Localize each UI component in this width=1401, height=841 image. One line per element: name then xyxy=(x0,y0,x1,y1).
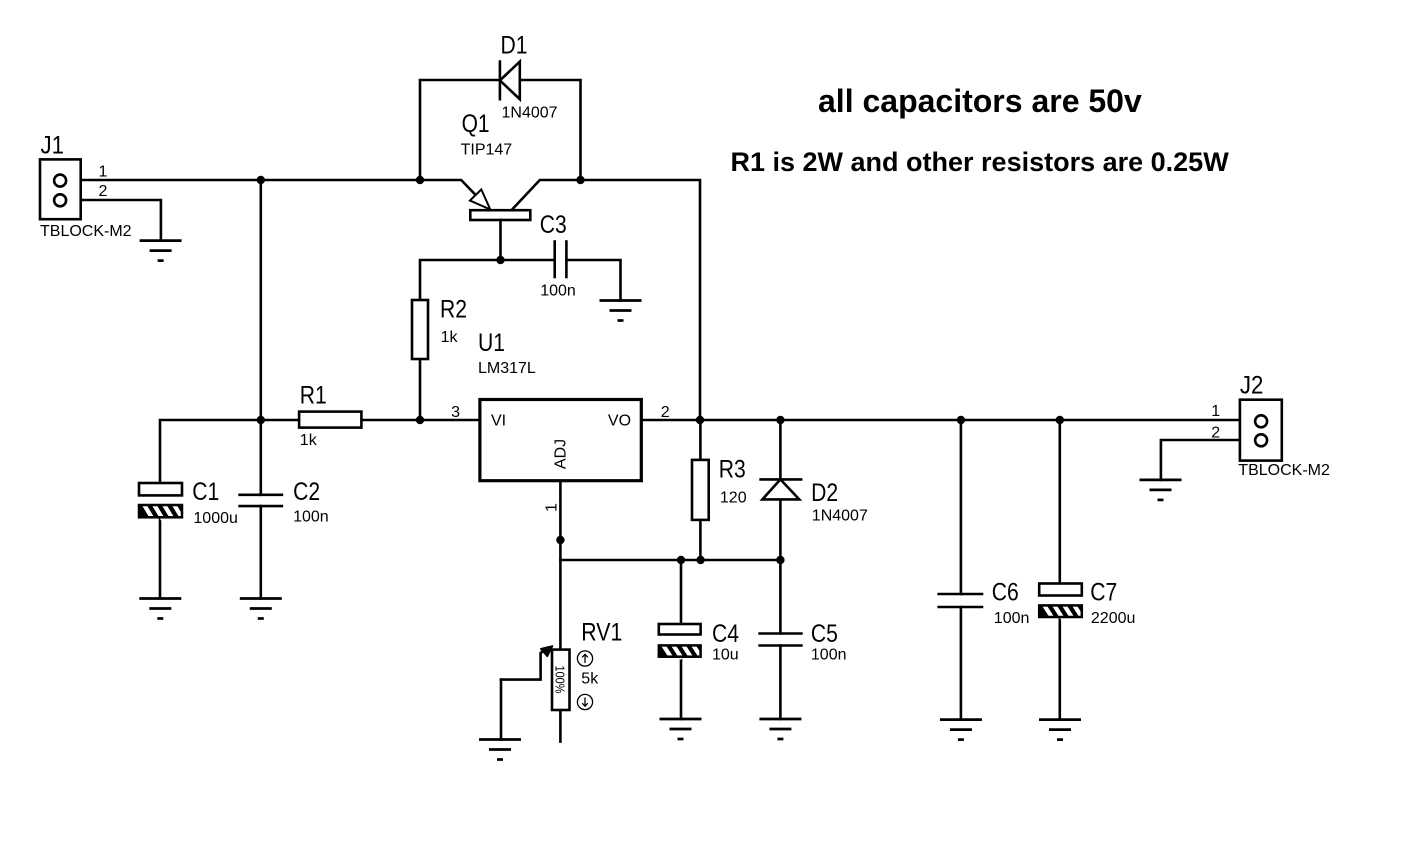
svg-text:C7: C7 xyxy=(1090,579,1117,607)
wire RV1 wiper xyxy=(501,649,547,680)
svg-text:100%: 100% xyxy=(553,666,568,694)
svg-text:R3: R3 xyxy=(719,456,746,484)
capacitor C7 (polarized) xyxy=(1039,584,1083,620)
wire C5 bottom lead to ground xyxy=(779,646,782,720)
RV1 down-arrow circle xyxy=(577,694,592,709)
svg-text:D2: D2 xyxy=(811,479,838,507)
svg-text:3: 3 xyxy=(451,404,460,421)
capacitor C5 xyxy=(760,634,802,646)
wiper arrowhead xyxy=(541,646,553,656)
svg-text:R1 is 2W and other resistors a: R1 is 2W and other resistors are 0.25W xyxy=(731,147,1230,177)
svg-text:120: 120 xyxy=(720,490,747,507)
svg-text:U1: U1 xyxy=(478,329,505,357)
svg-text:1k: 1k xyxy=(441,329,459,346)
capacitor C3 xyxy=(555,242,567,278)
wire VO rail (right) to J2 pin1 xyxy=(641,419,1255,422)
svg-text:2: 2 xyxy=(99,183,108,200)
ground (C1) xyxy=(139,599,181,619)
svg-text:1: 1 xyxy=(544,503,561,512)
RV1 up-arrow circle xyxy=(577,651,592,666)
node: VI rail / C2 xyxy=(257,416,265,424)
capacitor C1 (polarized) xyxy=(139,483,183,520)
wire C1 bottom lead to ground xyxy=(159,517,162,598)
wire C4 bottom lead to ground xyxy=(680,656,683,719)
wire C2 top lead xyxy=(259,420,262,495)
svg-text:100n: 100n xyxy=(811,647,847,664)
wire C7 top lead xyxy=(1059,420,1062,584)
transistor Q1 TIP147 xyxy=(420,180,581,260)
connector J2 TBLOCK-M2 xyxy=(1240,400,1282,461)
wire U1 ADJ pin xyxy=(559,481,562,560)
node: ADJ rail / R3 xyxy=(696,556,704,564)
node: input rail / C2 branch (top) xyxy=(257,176,265,184)
wire D2 bottom lead xyxy=(779,499,782,560)
svg-text:C5: C5 xyxy=(811,620,838,648)
svg-text:all capacitors are 50v: all capacitors are 50v xyxy=(818,83,1142,119)
wire C2 bottom lead to ground xyxy=(259,506,262,598)
svg-text:C1: C1 xyxy=(192,478,219,506)
svg-text:TIP147: TIP147 xyxy=(461,142,513,159)
capacitor C2 xyxy=(240,495,282,506)
wire ADJ bottom rail xyxy=(560,559,780,562)
node: Q1 base / R2 / C3 xyxy=(496,256,504,264)
wire D1 left leg xyxy=(420,80,500,180)
svg-text:TBLOCK-M2: TBLOCK-M2 xyxy=(1238,462,1330,479)
ground (C2) xyxy=(240,599,282,619)
ground (C4) xyxy=(660,719,702,739)
svg-text:R1: R1 xyxy=(300,381,327,409)
wire RV1 bottom lead (open) xyxy=(559,710,562,742)
svg-text:C2: C2 xyxy=(293,478,320,506)
ground (RV1) xyxy=(479,740,521,760)
wire J2 pin2 to ground xyxy=(1161,440,1255,480)
svg-text:1N4007: 1N4007 xyxy=(812,508,868,525)
node: VI rail / R2 xyxy=(416,416,424,424)
wire C3 to ground xyxy=(566,260,620,301)
node: Q1 collector / D1 right xyxy=(576,176,584,184)
connector J1 TBLOCK-M2 xyxy=(40,159,81,219)
svg-text:100n: 100n xyxy=(540,283,576,300)
svg-text:1000u: 1000u xyxy=(193,510,238,527)
wire C5 top lead xyxy=(779,560,782,634)
node: ADJ pin junction xyxy=(556,536,564,544)
wire RV1 top lead xyxy=(559,560,562,650)
resistor R3 xyxy=(692,460,709,520)
regulator U1 LM317L xyxy=(480,400,641,481)
wire R3 bottom lead xyxy=(699,520,702,560)
svg-text:C6: C6 xyxy=(992,579,1019,607)
svg-text:RV1: RV1 xyxy=(581,619,622,647)
ground (C3) xyxy=(600,301,642,321)
wire collector node to VO rail xyxy=(581,180,701,420)
wire R3 top lead xyxy=(699,420,702,460)
diode D2 xyxy=(761,479,802,499)
svg-text:C3: C3 xyxy=(540,211,567,239)
svg-text:100n: 100n xyxy=(994,610,1030,627)
wire C6 top lead xyxy=(960,420,963,594)
svg-text:2200u: 2200u xyxy=(1091,610,1136,627)
svg-text:2: 2 xyxy=(1211,424,1220,441)
node: ADJ rail / D2-C5 xyxy=(776,556,784,564)
node: Q1 emitter / D1 left xyxy=(416,176,424,184)
wire C7 bottom lead to ground xyxy=(1059,617,1062,720)
potentiometer RV1 xyxy=(552,650,570,710)
svg-text:VI: VI xyxy=(491,413,506,430)
wire RV1 wiper to ground xyxy=(500,680,503,740)
svg-text:VO: VO xyxy=(608,413,631,430)
wire VI rail (left) with C1 drop xyxy=(160,420,480,483)
svg-text:1: 1 xyxy=(99,163,108,180)
node: ADJ rail / C4 xyxy=(677,556,685,564)
svg-text:1k: 1k xyxy=(300,432,318,449)
wire input column down to VI rail xyxy=(259,180,262,420)
ground (J2 pin2) xyxy=(1140,480,1182,500)
wire C6 bottom lead to ground xyxy=(960,607,963,720)
svg-text:100n: 100n xyxy=(293,509,329,526)
ground (C7) xyxy=(1039,720,1081,740)
node: VO rail / D2 xyxy=(776,416,784,424)
capacitor C6 xyxy=(939,594,982,607)
wire C4 top lead xyxy=(680,560,683,625)
svg-text:2: 2 xyxy=(661,404,670,421)
node: VO rail / C6 xyxy=(957,416,965,424)
svg-text:R2: R2 xyxy=(440,296,467,324)
svg-text:C4: C4 xyxy=(712,620,739,648)
wire D2 top lead xyxy=(779,420,782,479)
node: VO rail / C7 xyxy=(1056,416,1064,424)
wire J1 pin2 to ground xyxy=(64,200,161,241)
svg-text:LM317L: LM317L xyxy=(478,360,536,377)
ground (C6) xyxy=(940,720,982,740)
svg-text:J2: J2 xyxy=(1240,372,1264,400)
svg-text:5k: 5k xyxy=(581,671,599,688)
svg-text:D1: D1 xyxy=(501,32,528,60)
svg-text:J1: J1 xyxy=(41,132,65,160)
svg-text:Q1: Q1 xyxy=(462,110,490,138)
svg-text:1: 1 xyxy=(1211,403,1220,420)
wire D1 right leg xyxy=(520,80,581,180)
resistor R2 xyxy=(412,300,428,359)
capacitor C4 (polarized) xyxy=(659,624,702,659)
node: VO rail / collector column xyxy=(696,416,704,424)
svg-text:ADJ: ADJ xyxy=(553,439,570,469)
ground (J1 pin2) xyxy=(140,241,182,261)
diode D1 xyxy=(500,62,520,100)
wire J1 pin1 to node at top rail xyxy=(64,179,420,182)
ground (C5) xyxy=(759,719,801,739)
svg-text:TBLOCK-M2: TBLOCK-M2 xyxy=(40,223,132,240)
resistor R1 xyxy=(299,412,361,428)
svg-text:10u: 10u xyxy=(712,647,739,664)
wire R2 bottom lead xyxy=(419,359,422,420)
wire Q1 base to R2/C3 xyxy=(420,260,555,300)
svg-text:1N4007: 1N4007 xyxy=(502,105,558,122)
